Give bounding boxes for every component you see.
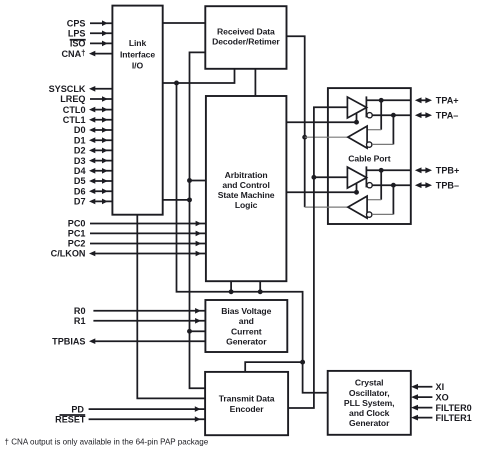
wire driver A output vertical [365,96,367,117]
wire TPA+ line [366,99,410,101]
wire TPB+ line [366,169,410,171]
signal D7 bidirectional arrow [74,197,113,207]
svg-text:D6: D6 [74,186,86,196]
signal C/LKON bidirectional arrow to Arbitration [51,249,206,259]
svg-text:R0: R0 [74,306,86,316]
wire control bus x189.6 from Received to Transmit [190,52,206,388]
svg-text:FILTER1: FILTER1 [436,413,472,423]
block U5 Bias Voltage and Current Generator [205,300,287,352]
wire branch to Bias block at y331.6 [190,330,206,332]
signal TPBIAS output arrow [52,336,205,346]
junction dot at 176.5,83 [174,81,179,86]
svg-text:Current: Current [231,326,262,336]
svg-text:R1: R1 [74,316,86,326]
wire TPA- drop to receiver A [392,115,394,144]
junction dot at 189.6,180.5 [187,178,192,183]
junction dot at 302.6,362.1 [300,360,305,365]
wire Link to Received Data bottom (y83) [163,69,235,83]
bubble on driver A inverted output [367,113,372,118]
wire receiver A plus input (gray) [367,129,381,131]
signal RESET input arrow with overline [55,414,205,424]
receiver B triangle (TPB) [348,196,367,218]
wire TPA- line [372,114,411,116]
block U6 Transmit Data Encoder [205,372,288,435]
svg-text:PD: PD [71,404,84,414]
svg-text:CNA†: CNA† [61,48,85,59]
svg-text:Decoder/Retimer: Decoder/Retimer [212,36,280,46]
signal TPA- double arrow [415,110,458,120]
svg-text:Logic: Logic [235,200,258,210]
svg-text:and Clock: and Clock [349,408,390,418]
junction dot at 304.7,137.2 [302,135,307,140]
wire TPB+ drop to receiver B [380,170,382,199]
svg-text:D4: D4 [74,166,87,176]
svg-text:XI: XI [436,382,445,392]
svg-text:TPA–: TPA– [436,110,459,120]
svg-text:PC0: PC0 [68,219,86,229]
signal R1 input arrow to Bias [74,316,206,326]
wire enable B from Arbitration right [286,183,356,192]
svg-text:Cable Port: Cable Port [348,154,390,164]
wire receiver A minus input (gray) [372,143,393,145]
svg-text:PC1: PC1 [68,229,86,239]
signal SYSCLK output arrow [49,84,113,94]
junction dot at 356.5,192.3 [354,190,359,195]
signal CTL0 bidirectional arrow [63,105,113,115]
signal D3 bidirectional arrow [74,156,113,166]
svg-text:and: and [239,316,254,326]
svg-text:TPA+: TPA+ [436,96,459,106]
bubble on receiver B inverted input [367,212,372,217]
signal D1 bidirectional arrow [74,135,113,145]
svg-text:D3: D3 [74,156,86,166]
svg-text:Encoder: Encoder [230,404,265,414]
wire Arbitration bottom stub x260.2 [259,281,261,292]
wire receiver B plus input (gray) [367,199,381,201]
svg-text:TPB–: TPB– [436,180,459,190]
junction dot at 231.1,291.8 [229,289,234,294]
signal R0 input arrow to Bias [74,306,206,316]
junction dot at 381,100.3 [379,98,384,103]
block U7 Crystal Oscillator, PLL System, and Clock Generator [328,371,411,435]
svg-text:PC2: PC2 [68,239,86,249]
svg-text:Link: Link [129,38,147,48]
svg-text:Generator: Generator [349,418,390,428]
signal LPS input arrow [68,29,113,39]
signal PC0 input arrow to Arbitration [68,219,206,229]
wire receiver B output (gray) [305,206,348,208]
signal TPA+ double arrow [415,96,459,106]
bubble on driver B inverted output [367,183,372,188]
svg-text:CTL1: CTL1 [63,115,86,125]
junction dot at 393.4,115.2 [391,113,396,118]
wire branch from Link right at y199.9 [163,199,190,201]
signal D0 bidirectional arrow [74,125,113,135]
svg-text:Oscillator,: Oscillator, [349,388,390,398]
junction dot at 393.4,185.2 [391,183,396,188]
driver B triangle (TPB) [347,167,366,188]
block U1 Link Interface I/O [112,6,162,215]
junction dot at 189.6,331.6 [187,329,192,334]
junction dot at 260.2,291.8 [258,289,263,294]
svg-text:D5: D5 [74,176,86,186]
svg-text:D1: D1 [74,135,86,145]
svg-text:Arbitration: Arbitration [225,170,268,180]
signal D2 bidirectional arrow [74,146,113,156]
wire Link bottom data line x137.3 to Transmit [137,215,205,399]
driver A triangle (TPA) [347,97,366,118]
signal D4 bidirectional arrow [74,166,113,176]
signal XI arrow into Crystal [411,382,444,392]
receiver A triangle (TPA) [348,126,367,148]
wire enable A from Arbitration right [286,113,356,122]
svg-text:PLL System,: PLL System, [344,398,395,408]
wire branch to driver B input [314,176,348,178]
block U4 Cable Port box [328,88,411,224]
signal FILTER1 arrow into Crystal [411,413,472,423]
bubble on receiver A inverted input [367,142,372,147]
wire driver B output vertical [365,166,367,187]
signal D6 bidirectional arrow [74,186,113,196]
junction dot at 356.5,122.2 [354,120,359,125]
wire received-data line x304.7 from Received right edge down [287,36,305,207]
svg-text:LREQ: LREQ [60,94,85,104]
svg-text:I/O: I/O [132,60,144,70]
svg-text:Transmit Data: Transmit Data [219,394,275,404]
wire receiver B minus input (gray) [372,213,393,215]
wire Received bottom to Arbitration top x255.4 [254,69,256,96]
svg-text:and Control: and Control [222,180,269,190]
wire branch to Arbitration left at y180.5 [190,180,206,182]
junction dot at 189.6,199.9 [187,197,192,202]
svg-text:Crystal: Crystal [355,378,384,388]
svg-text:Interface: Interface [120,49,155,59]
signal PC2 input arrow to Arbitration [68,239,206,249]
block U3 Arbitration and Control State Machine Logic [206,96,287,281]
svg-text:TPBIAS: TPBIAS [52,336,85,346]
signal CPS input arrow [67,18,113,28]
junction dot at 381,170.3 [379,168,384,173]
svg-text:RESET: RESET [55,414,86,424]
signal FILTER0 arrow into Crystal [411,403,472,413]
svg-text:SYSCLK: SYSCLK [49,84,86,94]
signal CNA output arrow with dagger [61,48,112,59]
signal TPB+ double arrow [415,166,459,176]
signal PC1 input arrow to Arbitration [68,229,206,239]
svg-text:XO: XO [436,392,449,402]
block U2 Received Data Decoder/Retimer [205,6,286,69]
svg-text:Bias Voltage: Bias Voltage [221,306,271,316]
svg-text:C/LKON: C/LKON [51,249,86,259]
wire Link to Received Data (top) [163,22,206,24]
svg-text:D0: D0 [74,125,86,135]
wire TPA+ drop to receiver A [380,100,382,129]
wire Arbitration bottom stub x231.1 [230,281,232,292]
signal PD input arrow to Transmit [71,404,205,414]
svg-text:CPS: CPS [67,18,86,28]
signal TPB- double arrow [415,180,459,190]
svg-text:† CNA output is only available: † CNA output is only available in the 64… [5,438,209,447]
wire clock branch to Transmit Data Encoder top [245,362,302,372]
signal CTL1 bidirectional arrow [63,115,113,125]
svg-text:Received Data: Received Data [217,26,275,36]
wire transmit line x313.9 from Transmit right edge up to drivers [288,107,347,408]
wire clock bus: down x176.5, across y291.8, down x302.6 to Crystal [177,83,328,393]
svg-text:State Machine: State Machine [218,190,275,200]
signal LREQ input arrow [60,94,112,104]
wire TPB- drop to receiver B [392,185,394,214]
svg-text:D7: D7 [74,197,86,207]
wire TPB- line [372,184,411,186]
svg-text:D2: D2 [74,146,86,156]
signal XO arrow into Crystal [411,392,449,402]
svg-text:LPS: LPS [68,29,86,39]
svg-text:Generator: Generator [226,336,267,346]
svg-text:CTL0: CTL0 [63,105,86,115]
junction dot at 313.9,177.3 [311,175,316,180]
svg-text:FILTER0: FILTER0 [436,403,472,413]
signal ISO input arrow with overline [70,39,113,49]
wire receiver A output (gray) [305,136,348,138]
svg-text:TPB+: TPB+ [436,166,460,176]
signal D5 bidirectional arrow [74,176,113,186]
